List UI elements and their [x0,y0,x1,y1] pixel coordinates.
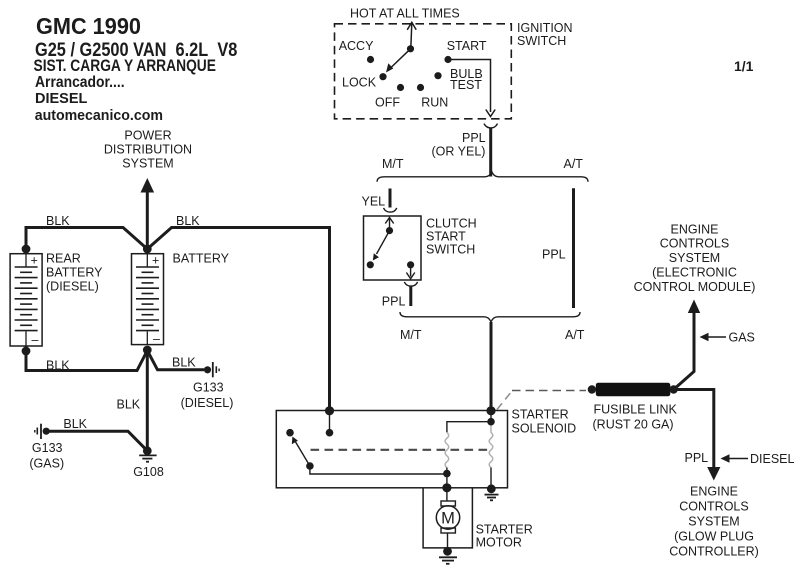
svg-text:HOT AT ALL TIMES: HOT AT ALL TIMES [350,6,460,20]
wire battery negative to G133 diesel [147,351,204,370]
brace merging M/T and A/T [400,312,580,322]
svg-text:PPL: PPL [382,294,406,308]
starter motor brush top [441,501,455,506]
node RUN contact [417,84,424,91]
svg-text:PPL: PPL [685,451,709,465]
connector bump below ignition switch [484,124,498,128]
ground G133 diesel [204,366,211,373]
svg-text:REAR: REAR [46,252,81,266]
arrow to power distribution system [146,188,149,249]
svg-text:OFF: OFF [375,96,400,110]
svg-text:START: START [447,39,487,53]
node ignition rotor [407,45,414,52]
dashed linkage solenoid plunger [311,449,491,451]
node battery negative junction [143,346,152,355]
svg-text:MOTOR: MOTOR [476,535,522,549]
svg-text:CONTROLLER): CONTROLLER) [669,544,759,558]
wire to starter solenoid S terminal [490,322,493,411]
solenoid switch arm arrow [295,441,310,466]
wire G133 gas to G108 [46,431,147,451]
node solenoid S contact [487,418,495,426]
wire A/T PPL [572,188,575,308]
node clutch switch movable contact [386,227,393,234]
connector bump below clutch start switch [404,282,417,286]
node fusible link left [588,385,596,393]
svg-text:G133: G133 [32,441,63,455]
starter motor brush bottom [441,528,455,533]
connector bump above clutch start switch [384,208,397,212]
wire S contact to coils [447,422,491,433]
svg-text:RUN: RUN [421,96,448,110]
svg-text:SWITCH: SWITCH [517,34,566,48]
ground solenoid [487,484,496,493]
ground G108 [143,446,152,455]
node START contact [444,56,451,63]
svg-text:FUSIBLE LINK: FUSIBLE LINK [594,403,678,417]
svg-text:CONTROLS: CONTROLS [660,237,729,251]
svg-text:GAS: GAS [729,331,755,345]
node clutch switch output contact [407,261,414,268]
svg-text:ENGINE: ENGINE [671,222,719,236]
svg-text:(DIESEL): (DIESEL) [46,280,99,294]
battery [132,254,164,345]
wire battery positive bus [26,228,330,412]
ground G133 gas [35,424,41,439]
pull-in coil winding [445,432,449,467]
svg-text:START: START [426,229,466,243]
svg-text:BLK: BLK [176,214,200,228]
svg-text:BLK: BLK [117,398,141,412]
svg-text:BLK: BLK [46,358,70,372]
ignition switch feed wire arrow up [407,22,416,49]
svg-text:(GLOW PLUG: (GLOW PLUG [674,529,754,543]
node OFF contact [397,84,404,91]
svg-text:CONTROLS: CONTROLS [679,499,748,513]
svg-text:M/T: M/T [382,157,404,171]
wire S terminal stub [490,411,492,422]
wire solenoid M to motor [446,488,448,501]
wire solenoid switch to coil common [310,466,447,474]
svg-text:SYSTEM: SYSTEM [669,251,720,265]
svg-text:BLK: BLK [172,355,196,369]
clutch start switch box [364,216,422,280]
svg-text:PPL: PPL [462,131,486,145]
dashed link to fusible link [497,391,512,410]
GAS pointer arrow [706,336,726,338]
ignition rotor arrow to LOCK [391,49,411,68]
svg-text:PPL: PPL [542,248,566,262]
svg-text:SIST. CARGA Y ARRANQUE: SIST. CARGA Y ARRANQUE [34,57,216,76]
svg-text:IGNITION: IGNITION [517,21,573,35]
svg-text:M/T: M/T [400,328,422,342]
svg-text:–: – [153,332,160,346]
svg-text:ACCY: ACCY [339,39,374,53]
svg-text:DIESEL: DIESEL [35,91,88,107]
svg-text:DIESEL: DIESEL [750,452,795,466]
svg-text:STARTER: STARTER [512,408,569,422]
svg-text:TEST: TEST [450,78,482,92]
wire YEL stub [389,189,392,208]
brace splitting M/T and A/T [377,172,588,182]
svg-text:BATTERY: BATTERY [46,266,103,280]
node ACCY contact [367,56,374,63]
hold-in coil winding [489,426,493,468]
starter solenoid box [276,411,507,488]
svg-text:SYSTEM: SYSTEM [122,157,173,171]
wire battery negative to G108 [146,350,149,451]
svg-text:(RUST 20 GA): (RUST 20 GA) [593,418,674,432]
svg-text:LOCK: LOCK [342,76,377,90]
node solenoid switch movable contact [306,462,314,470]
wire fusible link to ECM arrow [674,306,694,390]
fusible link body [596,383,671,397]
svg-text:–: – [32,333,39,347]
wire rear battery negative [26,346,147,371]
node solenoid B contact [326,429,334,437]
starter motor enclosure [423,488,472,548]
wire coil common down [446,468,448,488]
svg-text:DISTRIBUTION: DISTRIBUTION [104,143,192,157]
svg-text:SOLENOID: SOLENOID [512,422,577,436]
clutch switch arm [377,231,390,254]
starter motor M circle [436,506,459,529]
wire PPL (OR YEL) [489,128,492,177]
node rear battery positive [22,245,31,254]
wire START output [448,60,495,117]
svg-text:BATTERY: BATTERY [173,252,230,266]
svg-text:CONTROL MODULE): CONTROL MODULE) [634,280,756,294]
node solenoid B terminal top [325,406,334,415]
ignition switch box [335,24,512,119]
svg-text:A/T: A/T [565,328,585,342]
node LOCK contact [379,73,386,80]
node coil common [443,470,451,478]
svg-text:1/1: 1/1 [734,58,754,74]
svg-text:+: + [152,254,159,268]
svg-text:YEL: YEL [362,195,386,209]
wire hold-in coil to ground [490,468,492,489]
svg-text:+: + [31,254,38,268]
ground starter motor [443,547,452,556]
svg-text:BLK: BLK [46,214,70,228]
clutch switch output arrow [406,265,414,279]
node solenoid switch fixed contact [286,429,294,437]
node clutch switch fixed contact [367,261,374,268]
svg-text:M: M [441,509,455,527]
svg-text:SWITCH: SWITCH [426,242,475,256]
DIESEL pointer arrow [727,458,748,460]
svg-text:(OR YEL): (OR YEL) [432,144,486,158]
node BULB TEST contact [434,72,441,79]
svg-text:A/T: A/T [564,157,584,171]
wire fusible link to glow plug controller [674,390,714,471]
svg-text:SYSTEM: SYSTEM [688,514,739,528]
node solenoid S terminal top [486,406,495,415]
svg-text:ENGINE: ENGINE [690,484,738,498]
svg-text:G133: G133 [193,380,224,394]
node fusible link right [669,385,677,393]
wire B terminal stub [329,411,331,433]
svg-text:BLK: BLK [63,417,87,431]
svg-text:(GAS): (GAS) [29,457,64,471]
svg-text:(DIESEL): (DIESEL) [181,396,234,410]
svg-text:G108: G108 [133,465,164,479]
wire motor to ground [447,533,449,551]
svg-text:Arrancador....: Arrancador.... [35,74,125,91]
svg-text:STARTER: STARTER [476,522,533,536]
svg-text:(ELECTRONIC: (ELECTRONIC [652,266,737,280]
svg-text:GMC 1990: GMC 1990 [36,13,141,39]
svg-text:automecanico.com: automecanico.com [35,108,163,124]
wire PPL below clutch switch [409,286,412,306]
clutch switch input arrow [385,218,393,231]
svg-text:POWER: POWER [124,128,171,142]
node rear battery negative [22,347,31,356]
rear battery [10,254,42,346]
node solenoid M terminal [442,483,451,492]
svg-text:CLUTCH: CLUTCH [426,216,477,230]
node battery positive junction [143,245,152,254]
